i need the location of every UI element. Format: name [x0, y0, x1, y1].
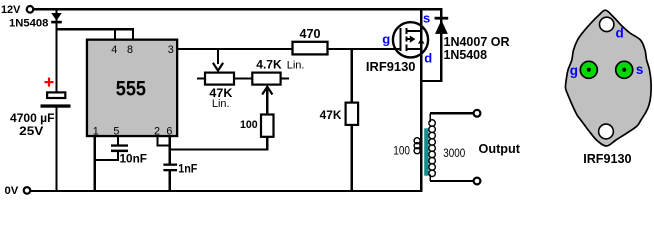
svg-text:47K: 47K [320, 110, 343, 122]
transistor Q1 IRF9130 MOSFET circle [393, 22, 428, 57]
svg-text:1nF: 1nF [178, 161, 197, 175]
capacitor C1 4700uF plates [41, 92, 71, 190]
svg-text:1: 1 [93, 126, 99, 138]
svg-text:4.7K Lin.: 4.7K Lin. [256, 58, 304, 72]
Q1 gate electrode [399, 28, 401, 51]
node output terminal bottom [474, 178, 481, 185]
capacitor C3 1nF plates [163, 164, 177, 172]
wire pin 3 to gate [177, 48, 394, 50]
wire pin 5 stub [117, 137, 119, 146]
svg-text:5: 5 [113, 126, 119, 138]
transformer T1 core [424, 128, 428, 175]
wire pin 1 down to 0V [94, 137, 96, 192]
svg-text:IRF9130: IRF9130 [366, 59, 416, 74]
svg-text:3: 3 [168, 44, 174, 56]
Q1 substrate arrowhead on vertical [418, 38, 424, 43]
wire R3 bottom to 0V [351, 125, 353, 191]
svg-text:s: s [636, 62, 644, 77]
resistor R3 47K [346, 103, 359, 125]
wire R2 bottom to pins 2,6 [169, 137, 269, 151]
svg-text:4700 µF: 4700 µF [10, 113, 55, 125]
resistor R1 470 [293, 42, 328, 55]
node output terminal top [474, 110, 481, 117]
Q1 drain stub [407, 48, 422, 50]
potentiometer VR1 47K body [197, 73, 252, 85]
potentiometer VR2 wiper arrow [262, 87, 272, 115]
IC U1 555 timer body [87, 40, 177, 136]
Q1 gate line [393, 48, 401, 50]
potentiometer VR1 47K wiper arrow [213, 49, 223, 71]
wire diode cathode to pins 4,8 [55, 28, 134, 30]
svg-text:25V: 25V [19, 126, 44, 138]
wire secondary top [430, 112, 474, 114]
potentiometer VR2 4.7K body [252, 73, 289, 85]
Q1 substrate stub with arrow [407, 36, 415, 43]
svg-text:g: g [382, 32, 390, 47]
Q1 source stub [407, 30, 422, 32]
diode D1 1N5408 [51, 10, 62, 92]
svg-text:0V: 0V [5, 185, 19, 197]
TO-3 package body [565, 10, 651, 146]
transformer T1 primary coil [414, 138, 420, 154]
svg-text:s: s [423, 11, 430, 26]
node 12V terminal [27, 6, 34, 13]
transformer T1 secondary coil [429, 113, 436, 181]
transformer T1 primary lead [420, 81, 422, 191]
svg-text:Lin.: Lin. [212, 98, 230, 110]
svg-text:Output: Output [479, 142, 521, 156]
resistor R2 100 [261, 115, 274, 137]
wire pin 8 stub [132, 28, 134, 41]
Q1 channel segments [405, 28, 407, 51]
wire 0V bottom rail [31, 190, 423, 192]
Q1 source-drain vertical line [420, 10, 422, 81]
svg-text:2: 2 [154, 126, 160, 138]
svg-text:g: g [570, 63, 578, 78]
svg-text:12V: 12V [1, 4, 21, 16]
wire pin 6 down to 0V [169, 137, 171, 191]
svg-text:555: 555 [116, 78, 146, 101]
wire C2 bottom to pin 1 [94, 152, 119, 161]
svg-text:100: 100 [393, 146, 410, 158]
wire pin 4 stub [114, 28, 116, 41]
wire drain jog [420, 80, 442, 82]
wire secondary bottom [430, 180, 474, 182]
TO-3 gate pin [580, 61, 597, 78]
svg-text:IRF9130: IRF9130 [583, 151, 631, 166]
svg-text:4: 4 [111, 44, 117, 56]
svg-text:6: 6 [166, 126, 172, 138]
capacitor C1 4700uF polarity mark [45, 78, 54, 87]
wire pin 2 to pin 6 bracket [156, 144, 171, 146]
svg-text:470: 470 [300, 26, 321, 41]
svg-text:3000: 3000 [443, 148, 465, 160]
svg-text:1N5408: 1N5408 [444, 48, 488, 62]
svg-text:d: d [424, 51, 432, 66]
diode D2 1N4007 [435, 10, 449, 80]
node 0V terminal [24, 187, 31, 194]
TO-3 bottom mounting hole [599, 124, 614, 139]
TO-3 top mounting hole [600, 17, 614, 31]
svg-text:d: d [616, 26, 624, 41]
svg-text:10nF: 10nF [120, 151, 148, 165]
TO-3 source pin [616, 61, 633, 78]
svg-text:1N4007 OR: 1N4007 OR [444, 35, 510, 49]
capacitor C2 10nF plates [111, 144, 128, 152]
svg-text:1N5408: 1N5408 [9, 17, 48, 29]
wire pin 2 stub [156, 137, 158, 147]
svg-text:8: 8 [127, 44, 133, 56]
svg-text:100: 100 [240, 119, 258, 131]
wire 12V top rail [34, 8, 443, 10]
wire 47K resistor top [351, 49, 353, 103]
